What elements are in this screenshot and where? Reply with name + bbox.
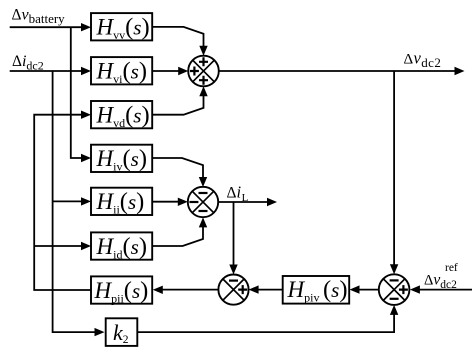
block k2 [106, 318, 138, 346]
summing junction J1 (+ + +) [188, 56, 219, 87]
node Δi_L label [227, 183, 249, 205]
wire duty branch to H_id [34, 245, 82, 247]
wire H_ii output to J2 left [152, 201, 179, 203]
block H_piv [283, 276, 350, 305]
wire H_vi output to J1 left [152, 70, 179, 72]
wire J1 output to Δv_dc2 arrow [219, 70, 455, 72]
wire H_vv output to J1 top [152, 27, 203, 47]
wire duty vertical (H_pii output up to H_vd) [34, 115, 91, 290]
node Δi_dc2 input label [12, 53, 44, 73]
block H_iv [91, 145, 152, 174]
wire Δv_dc2_ref input into J4 right [419, 289, 472, 291]
wire H_id output to J2 bottom [152, 226, 203, 246]
wire Δv_battery branch down to H_iv [71, 27, 82, 158]
wire H_piv output into J3 right [258, 289, 283, 291]
block H_vd [91, 101, 152, 130]
wire Δv_battery input line [10, 26, 82, 28]
summing junction J3 (− top, + right) [218, 275, 248, 305]
wire Δi_dc2 branch to H_ii [53, 200, 82, 202]
summing junction J4 (− top, + right, − bottom) [379, 274, 410, 305]
block H_pii [91, 276, 152, 305]
wire J4 output into H_piv right [359, 289, 379, 291]
wire Δi_dc2 branch down to k2 [53, 71, 95, 332]
wire k2 output up into J4 bottom [137, 314, 394, 333]
wire J2 output Δi_L arrow [218, 201, 267, 203]
block H_vv [91, 13, 152, 42]
wire Δi_L branch down to J3 top [233, 202, 235, 266]
node Δv_battery input label [12, 7, 66, 27]
wire H_iv output to J2 top [152, 158, 203, 178]
svg-text:Hii(s): Hii(s) [96, 188, 145, 217]
node Δv_dc2_ref label [424, 262, 458, 291]
block H_id [91, 232, 152, 261]
summing junction J2 (− − −) [188, 187, 218, 217]
wire J3 output into H_pii [162, 289, 218, 291]
block H_vi [91, 57, 152, 86]
svg-text:ref: ref [445, 262, 458, 274]
wire Δv_dc2 feedback branch down to J4 [393, 71, 395, 266]
wire Δi_dc2 input line [10, 70, 82, 72]
block H_ii [91, 188, 152, 217]
node Δv_dc2 output label [404, 49, 442, 71]
wire H_vd output to J1 bottom [152, 95, 203, 115]
